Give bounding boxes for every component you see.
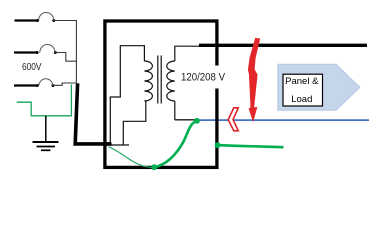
- svg-text:600V: 600V: [22, 61, 42, 73]
- svg-text:120/208 V: 120/208 V: [181, 71, 226, 83]
- svg-text:Panel &: Panel &: [285, 76, 319, 87]
- svg-text:Load: Load: [291, 94, 312, 105]
